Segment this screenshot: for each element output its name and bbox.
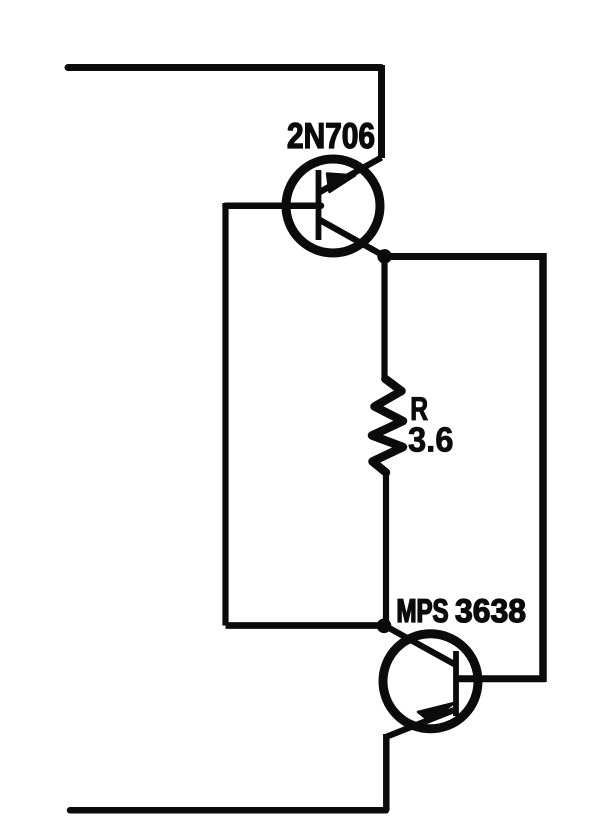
- wire: bottom-left horizontal into node B: [226, 622, 383, 629]
- resistor R 3.6: [372, 379, 403, 473]
- transistor Q1 2N706: [286, 158, 385, 257]
- node B junction dot (left wire / resistor / Q2 collector): [377, 619, 392, 634]
- label: Q2 type MPS3638: [398, 599, 525, 622]
- wire: top supply rail: [68, 64, 381, 71]
- transistor Q2 MPS3638: [383, 626, 545, 737]
- wire: Q1 emitter vertical drop from top rail: [378, 65, 385, 158]
- wire: right rail vertical: [539, 253, 547, 682]
- wire: Q2 emitter drop to bottom rail: [383, 734, 390, 810]
- wire: resistor down to node B: [383, 471, 389, 624]
- label: resistor value 3.6: [409, 427, 453, 452]
- node A junction dot (Q1 collector / resistor / right rail): [377, 249, 392, 264]
- wire: Q1 base lead: [226, 202, 322, 209]
- label: Q1 type 2N706: [288, 123, 374, 148]
- wire: node A to right rail (horizontal): [385, 253, 546, 260]
- wire: right rail bottom horizontal to Q2 base: [456, 675, 546, 682]
- wire: left feedback vertical (Q1 base to node B): [222, 203, 228, 626]
- label: resistor designator R: [412, 397, 428, 420]
- wire: node A down to resistor R: [381, 257, 387, 382]
- wire: bottom supply rail: [70, 807, 386, 814]
